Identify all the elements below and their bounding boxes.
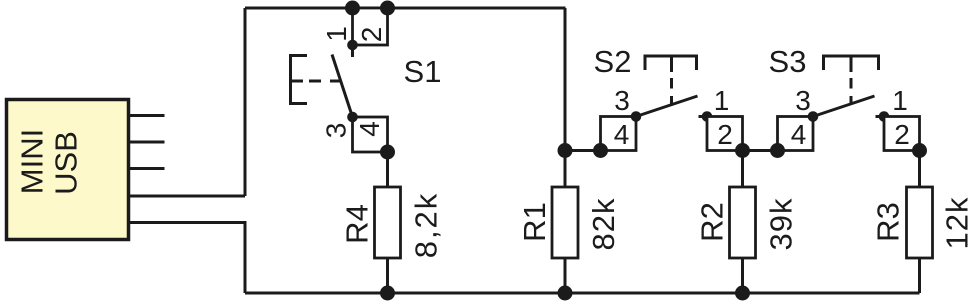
S2 actuator dashed link (670, 78, 673, 104)
resistor R2 (695, 187, 799, 258)
S3 pin 4 box (778, 117, 814, 151)
S2 pin 1 contact stub (699, 115, 708, 118)
connector pin stub 2 (128, 141, 165, 144)
junction S3 pin 2 / R3 (912, 143, 927, 158)
S2 actuator solid prong (670, 56, 673, 72)
S1 pin 2 box (353, 8, 388, 45)
junction S2 pin 4 (593, 143, 608, 158)
connector J1 MINI USB (7, 100, 129, 240)
junction S1 pin 4 / R4 (380, 145, 395, 160)
svg-text:4: 4 (614, 119, 630, 150)
junction top rail at S1 pin 2 (380, 1, 395, 16)
S1 pin 4 box (353, 117, 388, 152)
switch S3 (769, 44, 920, 151)
wire R1 feed vertical (564, 8, 567, 187)
wire USB pin 4 to left vertical (128, 195, 245, 198)
wire R4 to bottom rail (386, 258, 389, 293)
S2 pin 1 contact dot (702, 111, 713, 122)
svg-text:R3: R3 (871, 202, 906, 242)
wire R3 top (918, 151, 921, 188)
wire row S2 pin 2 to S3 pin 4 (743, 149, 778, 152)
junction bottom rail at R2 (735, 286, 750, 301)
svg-text:4: 4 (791, 119, 807, 150)
svg-text:3: 3 (795, 85, 811, 116)
wire left vertical (top rail to USB pin) (244, 8, 247, 196)
junction bottom rail at R4 (380, 286, 395, 301)
S3 actuator solid prong (850, 56, 853, 72)
svg-text:3: 3 (614, 85, 630, 116)
junction S2 pin 2 / R2 (735, 143, 750, 158)
svg-text:S3: S3 (769, 44, 807, 79)
S2 lever (636, 96, 698, 117)
switch S1 (291, 8, 442, 152)
junction bottom rail at R1 (558, 286, 573, 301)
svg-text:R1: R1 (517, 202, 552, 242)
svg-text:8,2k: 8,2k (409, 192, 444, 259)
svg-text:39k: 39k (764, 198, 799, 251)
S2 actuator bracket (645, 56, 697, 70)
wire R3 to bottom rail (918, 258, 921, 293)
svg-text:R4: R4 (340, 204, 375, 244)
svg-text:USB: USB (49, 131, 84, 195)
S3 pin 1 contact stub (876, 115, 885, 118)
wire bottom rail (245, 292, 920, 295)
svg-text:S1: S1 (404, 54, 442, 89)
resistor R4 (340, 187, 444, 258)
svg-text:1: 1 (892, 85, 908, 116)
S3 pin 3 contact dot (808, 111, 819, 122)
connector pin stub 1 (128, 114, 165, 117)
junction S3 pin 4 (770, 143, 785, 158)
connector pin stub 3 (128, 167, 165, 170)
S1 pin 1 contact stub (351, 45, 354, 57)
svg-text:MINI: MINI (15, 129, 50, 194)
svg-text:S2: S2 (594, 44, 632, 79)
wire R2 to bottom rail (741, 258, 744, 293)
svg-text:R2: R2 (695, 202, 730, 242)
S1 pin 3 contact dot (347, 112, 358, 123)
svg-text:1: 1 (714, 85, 730, 116)
junction R1 row (558, 143, 573, 158)
S3 pin 1 contact dot (879, 111, 890, 122)
wire R2 top (741, 151, 744, 188)
svg-text:2: 2 (356, 27, 387, 43)
svg-text:82k: 82k (586, 198, 621, 251)
wire R1 to bottom rail (564, 258, 567, 293)
S2 pin 2 box (707, 117, 743, 151)
S2 pin 3 contact dot (631, 111, 642, 122)
S1 pin 1 contact dot (347, 40, 358, 51)
svg-text:2: 2 (894, 119, 910, 150)
junction top rail at S1 pin 1 (345, 1, 360, 16)
S1 actuator link solid prong (291, 80, 304, 83)
resistor R1 (517, 187, 621, 258)
svg-text:2: 2 (717, 119, 733, 150)
S2 pin 4 box (601, 117, 637, 151)
wire USB pin 5 to bottom rail (128, 223, 245, 294)
S3 actuator dashed link (850, 78, 853, 104)
wire top rail (245, 7, 566, 10)
S3 pin 2 box (884, 117, 920, 151)
S1 actuator bracket (291, 56, 308, 104)
switch S2 (594, 44, 743, 151)
svg-text:3: 3 (321, 123, 352, 139)
S1 actuator dashed link (309, 80, 340, 83)
svg-text:4: 4 (354, 121, 385, 137)
svg-text:12k: 12k (940, 197, 970, 250)
svg-text:1: 1 (321, 26, 352, 42)
S1 lever (332, 55, 353, 118)
wire row R1 to S2 pin 4 (565, 149, 601, 152)
resistor R3 (871, 187, 970, 258)
wire S1 pin 4 to R4 (386, 152, 389, 187)
S3 actuator bracket (824, 56, 879, 70)
S3 lever (813, 96, 875, 117)
